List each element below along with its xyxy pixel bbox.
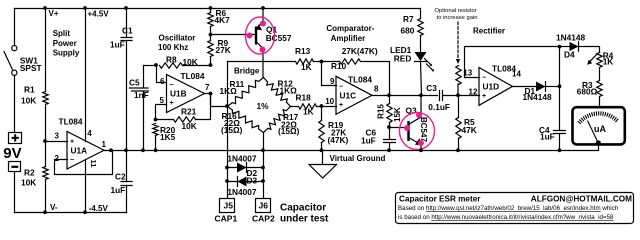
svg-text:1K: 1K — [303, 106, 314, 116]
svg-text:C1: C1 — [122, 25, 133, 35]
svg-text:R2: R2 — [24, 168, 35, 178]
svg-text:8: 8 — [374, 85, 379, 94]
svg-text:C5: C5 — [129, 78, 140, 88]
svg-text:Rectifier: Rectifier — [473, 27, 505, 36]
resistor R5 47K — [456, 118, 461, 139]
svg-text:R7: R7 — [403, 14, 414, 24]
svg-text:under test: under test — [280, 213, 329, 224]
wire C4 bottom to mid rail — [559, 135, 561, 151]
svg-text:1KΩ: 1KΩ — [220, 86, 238, 96]
svg-text:RED: RED — [394, 53, 412, 63]
wire U1B output stub — [205, 93, 211, 95]
svg-text:12: 12 — [469, 87, 478, 96]
battery BT 9V minus terminal — [9, 162, 21, 172]
svg-text:4: 4 — [87, 129, 92, 138]
svg-text:1N4148: 1N4148 — [523, 92, 552, 102]
svg-text:CAP1: CAP1 — [215, 214, 238, 224]
node mid rail R19 junction — [320, 148, 324, 152]
annotation magenta dot Q3 emitter — [418, 140, 424, 146]
wire R19 top stub — [321, 107, 323, 121]
wire C3 to pin12 node — [444, 95, 480, 97]
resistor R8 10K — [160, 63, 183, 68]
capacitor C4 1uF — [554, 131, 566, 134]
wire comparator output to C3 — [390, 95, 438, 97]
diode D2 1N4007 — [237, 163, 247, 173]
wire switch to battery — [14, 76, 16, 133]
wire R3 to meter — [599, 97, 601, 108]
svg-text:Amplifier: Amplifier — [331, 34, 366, 43]
wire V- bottom rail — [15, 212, 127, 214]
svg-text:TL084: TL084 — [348, 75, 372, 85]
wire R19 bottom to mid rail — [321, 143, 323, 151]
resistor R20 1K5 — [153, 124, 158, 136]
node bridge left feed — [225, 104, 229, 108]
svg-text:1uF: 1uF — [361, 136, 376, 146]
transistor Q1 BC557 PNP — [256, 8, 263, 77]
node top rail R6 junction — [209, 6, 213, 10]
node R8 C5 pin6 — [154, 63, 158, 67]
connector J6 — [256, 199, 271, 213]
svg-text:to increase gain: to increase gain — [437, 15, 478, 21]
svg-text:TL084: TL084 — [59, 116, 83, 126]
svg-text:R13: R13 — [295, 46, 311, 56]
wire C5 top stub — [143, 66, 145, 88]
svg-text:D3: D3 — [247, 175, 258, 185]
resistor R19 27K — [319, 121, 324, 143]
wire R5 bottom to mid rail — [458, 139, 460, 151]
svg-text:Supply: Supply — [53, 49, 80, 58]
wire U1A pin4 supply — [85, 9, 87, 142]
svg-text:Oscillator: Oscillator — [159, 33, 196, 42]
node pin11 bottom rail — [83, 210, 87, 214]
wire R5 top stub — [458, 96, 460, 118]
svg-text:J6: J6 — [259, 201, 269, 211]
node R15 C6 Q2 base — [387, 125, 391, 129]
resistor R18 1K — [299, 104, 317, 109]
resistor R16 22ohm bridge arm — [228, 107, 264, 133]
wire D4 to R4 — [579, 47, 600, 53]
op-amp U1A — [67, 132, 104, 170]
op-amp U1C — [336, 76, 372, 114]
annotation R4 trimmer arrow — [589, 54, 598, 63]
wire U1A pin11 to V- rail — [85, 160, 87, 213]
svg-text:−: − — [70, 157, 74, 164]
wire D1 to C4 node — [546, 86, 560, 88]
wire Q2 base — [390, 127, 409, 129]
svg-text:U1C: U1C — [340, 90, 357, 100]
node oscillator R8 junction — [209, 63, 213, 67]
svg-text:9V: 9V — [3, 145, 21, 162]
svg-text:10: 10 — [325, 97, 334, 106]
svg-text:1uF: 1uF — [110, 40, 125, 50]
node mid rail C5 junction — [141, 148, 145, 152]
node U1C output junction — [387, 93, 391, 97]
op-amp U1D — [479, 68, 513, 106]
svg-text:+4.5V: +4.5V — [88, 10, 110, 19]
wire R9 bottom to oscillator node — [210, 57, 212, 66]
svg-text:1uF: 1uF — [540, 132, 555, 142]
node top rail R1 junction — [43, 6, 47, 10]
wire top rail to R7 — [420, 9, 422, 19]
resistor R3 680ohm — [597, 81, 602, 97]
svg-text:Optional resistor: Optional resistor — [435, 8, 477, 14]
svg-text:14: 14 — [512, 69, 521, 78]
wire V+ top rail — [15, 8, 421, 10]
node Q1 base junction — [209, 33, 213, 37]
annotation magenta dot Q1 emitter — [260, 21, 266, 27]
node top rail pin4 junction — [83, 6, 87, 10]
svg-text:1K: 1K — [603, 57, 614, 67]
resistor R13 1K — [296, 59, 314, 64]
wire C1 bottom to mid rail — [126, 42, 128, 151]
node top rail Q1 emitter — [261, 6, 265, 10]
svg-text:1: 1 — [102, 140, 107, 149]
svg-text:U1B: U1B — [170, 89, 187, 99]
svg-text:2: 2 — [55, 154, 60, 163]
resistor R4 1K trimmer — [597, 53, 602, 68]
wire R6 top stub — [210, 9, 212, 13]
node mid rail Q3 emitter — [419, 148, 423, 152]
svg-text:TL084: TL084 — [181, 71, 205, 81]
wire virtual-ground mid rail — [105, 146, 599, 151]
svg-text:R10: R10 — [331, 61, 347, 71]
annotation magenta circle around Q3 — [400, 113, 435, 150]
wire R6 to R9 — [210, 27, 212, 41]
resistor R9 27K — [208, 41, 213, 57]
svg-text:11: 11 — [89, 160, 98, 168]
svg-text:J5: J5 — [224, 201, 234, 211]
svg-text:680Ω: 680Ω — [577, 86, 598, 96]
svg-text:Capacitor ESR meter: Capacitor ESR meter — [399, 195, 481, 204]
annotation magenta circle around Q1 — [246, 17, 275, 54]
wire bridge left node to R13 wire — [227, 62, 229, 107]
svg-text:CAP2: CAP2 — [252, 214, 275, 224]
resistor R17 22ohm bridge arm — [264, 107, 291, 133]
svg-text:680: 680 — [401, 26, 415, 36]
svg-text:V+: V+ — [49, 9, 59, 18]
svg-text:3: 3 — [55, 132, 60, 141]
svg-text:(15Ω): (15Ω) — [278, 126, 300, 136]
node R2 bottom rail — [43, 210, 47, 214]
wire C2 top — [126, 151, 128, 182]
node mid rail C1C2 junction — [124, 148, 128, 152]
annotation magenta dot Q3 collector — [416, 112, 422, 118]
wire U1A pin2 feedback loop — [55, 151, 113, 175]
svg-text:1K5: 1K5 — [160, 132, 176, 142]
resistor optional gain resistor (dashed leader) — [457, 22, 459, 60]
svg-text:R1: R1 — [24, 85, 35, 95]
wire R2 bottom to V- rail — [45, 180, 47, 213]
wire bridge right node to R18 — [291, 106, 299, 108]
svg-text:SPST: SPST — [20, 63, 42, 73]
svg-text:10K: 10K — [21, 178, 36, 188]
wire pin9 drop — [322, 62, 337, 86]
node mid rail R5 junction — [456, 148, 460, 152]
node R1 R2 midpoint — [43, 139, 47, 143]
svg-text:1N4148: 1N4148 — [556, 33, 585, 43]
svg-text:10K: 10K — [21, 96, 36, 106]
wire R1 top — [45, 9, 47, 92]
node D2 right — [261, 166, 265, 170]
resistor R11 1K bridge arm — [228, 78, 264, 107]
svg-text:27K(47K): 27K(47K) — [342, 46, 378, 56]
wire bridge left node down to CAP1 — [227, 107, 229, 199]
node D4 feedback junction — [558, 45, 562, 49]
wire R15 top stub — [389, 96, 391, 104]
node top rail C1 junction — [124, 6, 128, 10]
wire C6 top stub — [389, 128, 391, 139]
svg-text:4K7: 4K7 — [215, 15, 231, 25]
wire D2 row — [228, 167, 264, 169]
svg-text:Comparator-: Comparator- — [326, 24, 374, 33]
svg-text:1uF: 1uF — [111, 185, 126, 195]
node mid rail R20 junction — [154, 148, 158, 152]
node mid rail C6 junction — [387, 148, 391, 152]
svg-text:1%: 1% — [257, 101, 270, 111]
wire R10 right to output — [361, 62, 390, 96]
svg-text:Split: Split — [53, 29, 71, 38]
svg-text:1N4007: 1N4007 — [227, 153, 256, 163]
svg-text:47K: 47K — [462, 125, 477, 135]
resistor R7 680 — [418, 19, 423, 36]
resistor R10 27K — [340, 59, 361, 64]
node D3 left — [225, 179, 229, 183]
capacitor C3 0.1uF — [440, 91, 443, 101]
wire U1C output — [373, 95, 390, 97]
svg-text:Capacitor: Capacitor — [280, 203, 326, 214]
svg-text:27K: 27K — [216, 45, 231, 55]
svg-text:V-: V- — [50, 203, 58, 212]
resistor R2 10K — [43, 167, 48, 180]
svg-text:15K: 15K — [393, 107, 402, 122]
wire D3 row — [228, 181, 264, 183]
wire R8 right to oscillator node — [183, 65, 211, 67]
svg-text:6: 6 — [160, 77, 165, 86]
annotation magenta dot Q1 base — [247, 33, 253, 39]
wire R18 to pin10 — [317, 106, 337, 108]
svg-text:R21: R21 — [181, 106, 197, 116]
wire C5 bottom to mid rail — [143, 92, 145, 151]
info box Capacitor ESR meter — [396, 193, 634, 224]
svg-text:100 Khz: 100 Khz — [158, 43, 188, 52]
transistor Q3 BC547 NPN — [409, 95, 422, 150]
svg-text:(15Ω): (15Ω) — [221, 125, 243, 135]
svg-text:C3: C3 — [426, 83, 437, 93]
wire R10 left stub — [322, 61, 340, 63]
svg-text:10K: 10K — [182, 121, 197, 131]
capacitor C5 1nF — [130, 88, 149, 91]
svg-text:U1D: U1D — [483, 81, 500, 91]
switch SW1 SPST — [4, 46, 17, 76]
node pin10 R19 — [320, 104, 324, 108]
resistor R6 4K7 — [208, 13, 213, 27]
svg-text:Based on http://www.qsl.net/iz: Based on http://www.qsl.net/iz7ath/web/0… — [398, 205, 619, 212]
svg-text:BC547: BC547 — [419, 117, 428, 142]
wire divider mid to U1A pin3 — [46, 141, 68, 143]
svg-text:Virtual Ground: Virtual Ground — [330, 154, 386, 163]
svg-text:R18: R18 — [296, 93, 312, 103]
wire Q1 base — [211, 34, 256, 36]
wire pin5 to R20 column — [156, 105, 167, 120]
node pin5 R21 R20 — [154, 118, 158, 122]
svg-text:BC557: BC557 — [266, 33, 292, 43]
ground virtual ground symbol — [309, 165, 337, 179]
wire R4 to R3 — [599, 68, 601, 81]
diode D3 1N4007 — [238, 177, 247, 187]
battery BT 9V plus terminal — [9, 133, 22, 144]
svg-text:Bridge: Bridge — [234, 67, 260, 76]
wire LED1 to signal wire — [421, 62, 422, 96]
svg-text:R15: R15 — [377, 104, 386, 119]
svg-text:R8: R8 — [166, 55, 177, 65]
svg-text:ALFGON@HOTMAIL.COM: ALFGON@HOTMAIL.COM — [531, 195, 632, 204]
svg-text:C2: C2 — [115, 172, 126, 182]
annotation magenta dot Q3 base — [404, 125, 410, 131]
node D1 D4 C4 junction — [558, 84, 562, 88]
wire D4 row — [560, 46, 570, 48]
wire R13 to R10 node — [314, 61, 322, 63]
svg-text:U1A: U1A — [71, 145, 88, 155]
wire virtual ground stub — [322, 151, 324, 165]
node bridge bottom mid rail — [261, 148, 265, 152]
wire R1 to junction — [45, 105, 47, 167]
svg-text:-4.5V: -4.5V — [89, 204, 109, 213]
annotation magenta dot Q1 collector — [260, 47, 266, 53]
svg-text:1KΩ: 1KΩ — [280, 86, 298, 96]
capacitor C2 1uF — [121, 182, 132, 186]
diode D1 1N4148 — [536, 82, 546, 92]
svg-text:1N4007: 1N4007 — [227, 187, 256, 197]
wire C4 column — [559, 87, 561, 130]
wire C1 top — [126, 9, 128, 37]
wire pin13 feedback — [465, 47, 560, 78]
node R13 R10 pin9 — [320, 60, 324, 64]
wire bridge left to R13 — [228, 61, 296, 63]
svg-text:(47K): (47K) — [328, 135, 349, 145]
svg-text:1nF: 1nF — [134, 90, 149, 100]
wire bridge bottom to mid rail and CAP2 — [263, 133, 265, 199]
svg-text:is based on http://www.nuovael: is based on http://www.nuovaelettronica.… — [398, 214, 614, 221]
op-amp U1B — [167, 75, 205, 113]
wire pin6 drop — [157, 66, 167, 83]
wire C5 R8 node — [144, 65, 157, 67]
wire U1D output to D1 — [513, 86, 537, 88]
capacitor C6 1uF — [384, 140, 396, 143]
wire R7 to LED1 — [420, 36, 422, 53]
resistor R1 10K — [43, 92, 48, 105]
svg-text:+: + — [482, 93, 486, 100]
connector J5 — [220, 199, 235, 213]
svg-text:+: + — [339, 102, 343, 109]
node D3 right — [261, 179, 265, 183]
resistor R12 1K bridge arm — [264, 78, 291, 107]
svg-text:0.1uF: 0.1uF — [428, 102, 450, 112]
node D2 left — [225, 166, 229, 170]
resistor R15 15K — [387, 104, 392, 123]
node pin12 R5 junction — [456, 93, 460, 97]
wire R21 to output column — [196, 94, 211, 120]
node mid rail C4 junction — [558, 148, 562, 152]
meter uA microammeter — [573, 107, 625, 145]
LED LED1 RED — [415, 52, 435, 72]
wire oscillator output to bridge feed — [211, 94, 228, 107]
wire D4 column — [559, 47, 561, 87]
wire C6 bottom to mid rail — [389, 144, 391, 151]
wire battery left column top — [14, 9, 16, 46]
node U1B output — [209, 92, 213, 96]
node U1A output feedback — [109, 148, 113, 152]
svg-text:1K: 1K — [301, 62, 312, 72]
diode D4 1N4148 — [570, 42, 579, 51]
svg-text:D4: D4 — [564, 50, 575, 60]
capacitor C1 1uF — [121, 38, 132, 41]
wire R21 left stub — [156, 119, 174, 121]
wire battery minus to V- rail — [14, 173, 16, 213]
svg-text:7: 7 — [205, 83, 210, 92]
svg-text:Power: Power — [53, 39, 77, 48]
svg-text:9: 9 — [330, 77, 335, 86]
svg-text:5: 5 — [160, 96, 165, 105]
svg-text:uA: uA — [594, 124, 606, 134]
wire C2 bottom to V- rail — [126, 186, 128, 213]
wire R20 bottom to mid rail — [155, 136, 157, 151]
wire R15 bottom to node — [389, 123, 391, 128]
svg-text:+: + — [170, 100, 174, 107]
node signal wire Q3 collector LED — [419, 93, 423, 97]
resistor R21 10K — [174, 117, 196, 122]
